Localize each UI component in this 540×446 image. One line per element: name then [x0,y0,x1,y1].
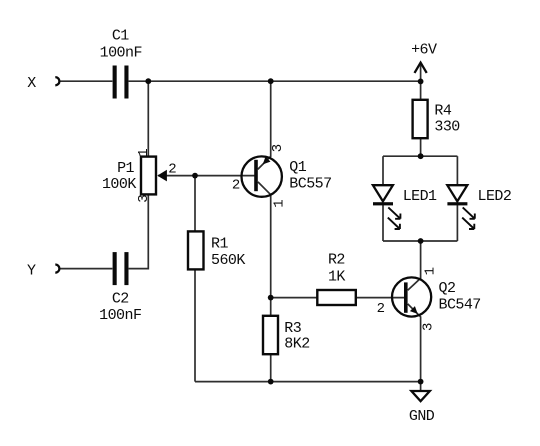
connector pin X [55,77,59,85]
svg-text:2: 2 [377,301,385,317]
node Q1 collector / R2 / R3 junction [268,295,274,301]
svg-text:Q1: Q1 [289,159,306,176]
node R4 / LED rail junction [418,153,424,159]
wire X input lead [59,80,112,82]
transistor Q2 (NPN BC547) [392,277,431,316]
wire R1 bottom to bottom rail [194,269,196,381]
ground symbol [411,391,429,401]
wire Y input lead [59,268,112,270]
svg-text:BC557: BC557 [289,175,331,192]
svg-text:1K: 1K [328,268,345,285]
svg-text:2: 2 [168,161,176,177]
transistor Q1 (PNP BC557) [242,156,282,196]
resistor R3 [263,316,278,354]
svg-text:100K: 100K [102,176,136,193]
svg-text:Y: Y [27,262,36,279]
wire LED2 cathode lead [456,204,458,241]
wire R2 right to Q2 base [356,297,405,299]
svg-text:C2: C2 [112,291,129,308]
node LED rail / Q2 collector junction [418,238,424,244]
wire LED top rail [383,155,457,157]
svg-text:3: 3 [270,144,286,152]
node R3 / bottom rail junction [268,379,274,385]
svg-text:3: 3 [421,323,437,331]
LED2 light arrows [462,207,475,229]
svg-text:1: 1 [271,199,287,207]
wire LED bottom rail [383,240,457,242]
wire top rail C1 to +6V node [129,80,421,82]
svg-text:100nF: 100nF [100,44,142,61]
svg-text:C1: C1 [112,28,129,45]
svg-text:LED2: LED2 [478,188,512,205]
node Q1 emitter junction [268,78,274,84]
wire R3 bottom to bottom rail [270,354,272,381]
svg-text:Q2: Q2 [439,280,456,297]
node +6V junction [418,79,424,85]
wire Q1 emitter to top rail [258,81,271,169]
node GND junction [418,379,424,385]
wire node to R2 left [271,297,318,299]
wire +6V arrow to R4 top [420,63,422,100]
wire R4 bottom to LED rail [420,138,422,156]
wire LED1 cathode lead [382,204,384,241]
svg-text:R4: R4 [434,103,451,120]
capacitor C2 [113,252,129,285]
wire P1 wiper to Q1 base [158,175,255,177]
wire bottom rail [195,381,421,383]
resistor R1 [188,231,204,269]
svg-text:2: 2 [232,177,240,193]
svg-text:R3: R3 [284,320,301,337]
svg-text:100nF: 100nF [99,307,141,324]
capacitor C1 [113,66,129,99]
svg-text:3: 3 [136,194,152,202]
wire Q2 emitter to GND [408,304,421,382]
svg-text:R2: R2 [328,252,345,269]
wire P1 pin3 to C2 [129,194,149,268]
wire node to R3 top [270,298,272,316]
wire LED rail to Q2 collector [408,241,421,290]
svg-text:LED1: LED1 [403,188,437,205]
wire wiper junction to R1 top [194,176,196,232]
wire Q1 collector down to node [258,182,271,298]
svg-text:GND: GND [409,408,435,425]
svg-text:8K2: 8K2 [284,336,309,353]
LED1 diode symbol [373,185,393,205]
svg-text:560K: 560K [211,252,245,269]
svg-text:X: X [27,75,36,92]
svg-text:P1: P1 [117,160,134,177]
connector pin Y [55,265,59,273]
wire LED2 anode lead [456,156,458,185]
svg-text:1: 1 [422,267,438,275]
potentiometer P1 [141,157,167,195]
svg-text:330: 330 [434,118,460,135]
wire P1 pin1 to top rail [147,81,149,156]
node P1 wiper / R1 junction [192,173,198,179]
svg-text:1: 1 [136,148,152,156]
LED2 diode symbol [447,185,467,205]
wire LED1 anode lead [382,156,384,185]
power +6V symbol [415,63,427,73]
svg-text:R1: R1 [211,236,228,253]
svg-text:BC547: BC547 [439,296,481,313]
LED1 light arrows [388,207,401,229]
svg-text:+6V: +6V [411,42,437,59]
resistor R4 [413,100,428,138]
node C1/P1 junction [145,78,151,84]
wire GND stub [420,382,422,391]
resistor R2 [317,290,356,305]
